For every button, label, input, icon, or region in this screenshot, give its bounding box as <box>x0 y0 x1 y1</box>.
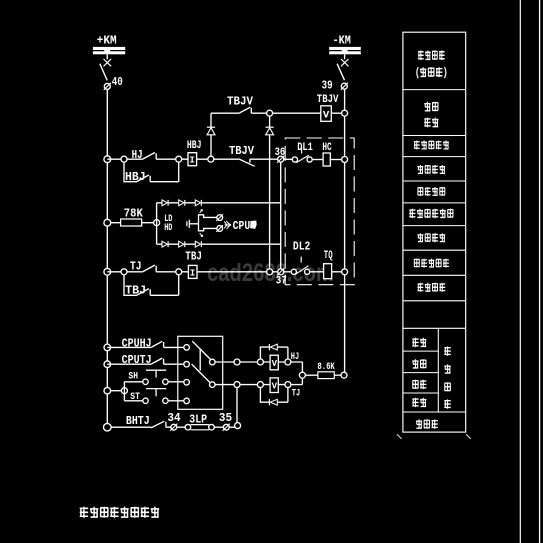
junction circle 124/271.8 <box>121 269 127 275</box>
node junction 269.6/271.8 <box>267 269 273 275</box>
svg-text:3LP: 3LP <box>189 413 207 426</box>
diode D6 <box>162 241 167 247</box>
svg-text:CPUHJ: CPUHJ <box>122 336 152 350</box>
diode D8 <box>195 241 200 247</box>
node on left bus CPUTJ row <box>104 361 111 368</box>
wire from TBJV row down <box>210 113 212 127</box>
vertical wire node36 to node37 <box>280 162 282 269</box>
wire TJ to TBJ coil <box>156 271 188 273</box>
wire SH/ST split <box>124 382 142 401</box>
node on right bus row C <box>342 269 348 275</box>
node on left bus SH/ST feed <box>104 387 111 394</box>
svg-text:I: I <box>190 267 196 278</box>
wire drop to 3LP row <box>236 388 238 423</box>
node on left bus row A <box>104 156 111 163</box>
table text row1a (kong qi kai guan) <box>418 50 445 60</box>
svg-text:35: 35 <box>219 412 232 425</box>
wire 35 to end circle <box>229 426 235 428</box>
node 34 <box>170 424 177 431</box>
svg-text:78K: 78K <box>124 207 143 220</box>
contact TBJV (upper) <box>240 107 252 113</box>
wire CPU bottom rail <box>157 243 281 245</box>
svg-text:8.6K: 8.6K <box>317 362 334 373</box>
table text row1b (rong duan qi in parens) <box>417 67 446 78</box>
relay coil HBJ (I) <box>188 153 197 166</box>
switch box terminal 3 <box>184 380 190 386</box>
svg-text:34: 34 <box>167 412 180 425</box>
svg-text:TJ: TJ <box>292 388 300 399</box>
svg-text:ST: ST <box>130 391 140 403</box>
junction circle 124/159 <box>121 156 127 162</box>
svg-text:TQ: TQ <box>324 250 333 262</box>
wire node37 to DL2 <box>284 271 292 273</box>
resistor 78K <box>121 219 142 226</box>
node 35 <box>223 424 230 431</box>
svg-text:HJ: HJ <box>132 149 143 162</box>
node junction 178.7/159 <box>176 156 182 162</box>
wire 8.6K to bus <box>334 374 341 376</box>
branch TBJ contact <box>124 275 179 296</box>
svg-text:TBJ: TBJ <box>185 250 202 263</box>
svg-text:TBJV: TBJV <box>229 145 254 158</box>
table text row7 (he zha xin hao) <box>417 233 445 242</box>
label CPU with arrows <box>224 219 256 233</box>
node junction 210.8/159 <box>208 156 214 162</box>
contact TJ <box>143 265 156 272</box>
pushbutton SH <box>143 370 168 384</box>
relay coil HC <box>323 153 330 166</box>
node on left bus CPUHJ row <box>104 344 111 351</box>
svg-text:SH: SH <box>128 371 138 383</box>
diode D10 (TJ branch) <box>260 388 288 406</box>
relay coil TBJ (I) <box>188 265 197 278</box>
optocoupler output node lower <box>216 225 223 232</box>
node on left bus BHTJ row <box>104 423 112 431</box>
wire node36 to DL1 <box>284 158 293 160</box>
wire SH to switch box <box>168 381 184 383</box>
relay coil TQ <box>324 264 332 279</box>
svg-text:DL1: DL1 <box>297 142 313 154</box>
contact CPUHJ <box>152 341 164 347</box>
table text row8 (tiao zha ji dian qi) <box>414 259 449 268</box>
wire ST to switch box <box>168 400 184 402</box>
wire TQ to bus <box>332 271 342 273</box>
svg-text:I: I <box>189 155 195 166</box>
wire SH/ST feed <box>111 390 122 392</box>
svg-text:40: 40 <box>112 76 123 89</box>
wire right bus vertical <box>344 89 346 375</box>
svg-text:TBJ: TBJ <box>125 284 146 297</box>
wire TBJV row <box>211 112 342 114</box>
wire left bus vertical <box>106 89 108 427</box>
svg-text:+KM: +KM <box>97 33 117 47</box>
pushbutton ST <box>143 389 168 404</box>
wire DL2 to TQ <box>310 271 324 273</box>
junction circle 260.4/384.6 <box>257 382 263 388</box>
svg-text:DL2: DL2 <box>293 241 310 254</box>
svg-text:36: 36 <box>275 147 286 159</box>
relay coil TJ (V) <box>270 378 278 393</box>
contact DL1 (breaker aux) <box>292 148 312 163</box>
table text row2a (fang tiao) <box>424 102 438 112</box>
table text row6 (kong zhi hui lu jian ce) <box>409 209 453 218</box>
branch HBJ contact <box>124 162 179 182</box>
node 37 <box>277 268 284 275</box>
wire CPU left rail <box>156 203 158 244</box>
wire row A start <box>107 158 143 160</box>
table text bao hu tiao <box>416 419 438 428</box>
node junction 237/384.6 <box>234 382 240 388</box>
diode D1 (up, x=211) <box>207 127 215 156</box>
table text row9 (fen zha bao chi) <box>417 283 445 292</box>
switch box terminal 2 <box>184 361 190 367</box>
contact TBJV (lower, NC style) <box>239 159 255 166</box>
contact DL2 (breaker aux) <box>291 257 310 275</box>
diode D2 (up, x=269.6) <box>266 116 274 269</box>
switch blade lower <box>192 364 210 382</box>
wire HJ to HBJ coil <box>156 158 188 160</box>
junction circle 124.4/390.7 <box>121 388 127 394</box>
table text shou fen <box>412 398 426 407</box>
breaker switch on +KM <box>100 54 111 80</box>
wire to HJ coil <box>263 361 285 363</box>
node junction 302.4/375.2 <box>299 372 305 378</box>
diode D7 <box>179 241 184 247</box>
svg-text:39: 39 <box>322 79 333 92</box>
table text fang <box>444 364 450 373</box>
changeover switch box <box>178 336 223 409</box>
wire node to 8.6K <box>305 374 318 376</box>
node on right bus row A <box>342 157 348 163</box>
wire row C start <box>107 271 143 273</box>
junction circle 260.4/362 <box>257 359 263 365</box>
switch link bar <box>199 348 201 370</box>
junction circle end of 3LP row <box>235 423 241 429</box>
border line inner right <box>519 0 521 543</box>
wire BHTJ row <box>111 426 171 428</box>
border line outer right <box>539 0 541 543</box>
wire HBJ coil to TBJV contact <box>197 158 239 160</box>
optocoupler output node upper <box>216 214 223 221</box>
switch box terminal 1 <box>184 345 190 351</box>
table corner tick left <box>397 434 402 439</box>
table text yuan <box>444 346 450 355</box>
node on left bus row C <box>104 268 111 275</box>
wire CPU top rail <box>157 202 281 204</box>
table text row2b (hui lu) <box>424 118 438 128</box>
note text (xu kuang nei wei wai bu qi jian) <box>80 507 159 518</box>
wire HJ branch to node <box>291 362 302 372</box>
table text yao fen <box>412 359 426 368</box>
switch blade upper <box>192 341 210 359</box>
svg-text:CPUTJ: CPUTJ <box>122 353 152 367</box>
svg-text:HJ: HJ <box>291 352 299 363</box>
svg-text:V: V <box>323 111 329 122</box>
contact BHTJ <box>151 421 166 428</box>
switch box terminal 4 <box>184 398 190 404</box>
node 36 <box>277 156 284 163</box>
table grid <box>403 32 466 432</box>
node on left bus row B <box>104 219 111 226</box>
optocoupler U1 <box>187 210 217 237</box>
junction circle 156.6/222.7 <box>154 220 160 226</box>
junction circle 287.9/362 <box>285 359 291 365</box>
connector link 3LP <box>177 424 224 430</box>
svg-text:TJ: TJ <box>130 261 142 274</box>
svg-text:HC: HC <box>322 142 332 154</box>
diode D4 <box>179 200 184 206</box>
node junction 344/375.2 <box>341 372 347 378</box>
svg-text:TBJV: TBJV <box>227 95 254 109</box>
svg-text:BHTJ: BHTJ <box>126 415 150 428</box>
power bus +KM busbar symbol <box>93 47 125 54</box>
table text yao he <box>412 338 426 347</box>
table text di <box>444 399 450 408</box>
table text shou he <box>412 380 426 389</box>
node junction at 269.6/113 <box>267 110 273 116</box>
switch box output 1 <box>210 359 216 365</box>
wire TBJV lower to node 36 <box>250 158 278 160</box>
wire HC to bus <box>330 159 341 161</box>
table text row3 (he zha ji dian qi) <box>414 141 449 150</box>
contact HJ <box>143 153 156 160</box>
relay coil HJ (V) <box>270 355 278 370</box>
wire to TJ coil <box>263 384 285 386</box>
diode D3 <box>162 200 167 206</box>
table text row4 (he zha bao chi) <box>417 165 445 174</box>
junction circle 287.9/384.6 <box>285 382 291 388</box>
svg-text:-KM: -KM <box>333 33 351 47</box>
wire box output2 to TJ branch <box>215 384 257 386</box>
svg-text:V: V <box>272 382 278 392</box>
svg-text:HBJ: HBJ <box>125 171 146 184</box>
diode D9 (HJ branch) <box>260 344 288 359</box>
resistor 8.6K <box>318 372 334 379</box>
node junction 237/362 <box>234 359 240 365</box>
wire row B to resistor <box>111 222 121 224</box>
diode D5 <box>195 200 200 206</box>
wire DL1 to HC <box>312 159 323 161</box>
svg-text:HD: HD <box>164 223 172 234</box>
contact CPUTJ <box>152 358 164 364</box>
table text row5 (fen zha xin hao) <box>418 187 445 196</box>
wire CPUHJ row <box>107 346 184 348</box>
svg-text:V: V <box>272 359 278 369</box>
svg-text:TBJV: TBJV <box>317 94 339 106</box>
breaker switch on -KM <box>337 54 348 80</box>
relay coil TBJV (V) <box>321 106 332 122</box>
wire TJ branch to node <box>291 378 302 384</box>
node on right bus at TBJV row <box>342 110 348 116</box>
wire resistor to rail <box>142 222 154 224</box>
svg-text:HBJ: HBJ <box>187 140 202 152</box>
wire CPUTJ row <box>107 363 184 365</box>
node junction 178.7/271.8 <box>176 269 182 275</box>
power bus -KM busbar symbol <box>329 47 361 54</box>
node 40 <box>104 83 111 90</box>
switch box output 2 <box>210 382 216 388</box>
dashed box (external devices) <box>285 138 354 285</box>
wire box output1 to HJ branch <box>215 361 257 363</box>
node 39 <box>341 83 348 90</box>
wire TBJ coil to node 37 <box>197 271 278 273</box>
table text jiu <box>444 382 450 391</box>
table corner tick right <box>466 434 471 439</box>
svg-text:CPU: CPU <box>233 219 251 233</box>
